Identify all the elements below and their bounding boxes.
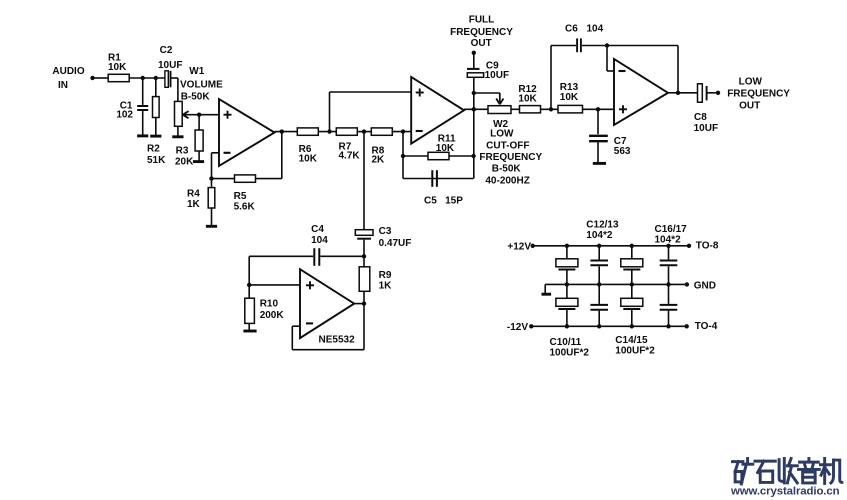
svg-text:R4: R4 bbox=[187, 188, 200, 199]
svg-text:100UF*2: 100UF*2 bbox=[550, 348, 590, 359]
svg-text:C12/13: C12/13 bbox=[586, 219, 619, 230]
svg-text:C5 15P: C5 15P bbox=[424, 196, 463, 207]
svg-text:R5: R5 bbox=[234, 191, 247, 202]
svg-text:B-50K: B-50K bbox=[181, 91, 211, 102]
svg-text:FREQUENCY: FREQUENCY bbox=[479, 152, 542, 163]
svg-text:OUT: OUT bbox=[739, 100, 760, 111]
svg-text:TO-8: TO-8 bbox=[696, 240, 719, 251]
svg-text:FULL: FULL bbox=[469, 15, 495, 26]
svg-text:100UF*2: 100UF*2 bbox=[615, 345, 655, 356]
svg-text:C3: C3 bbox=[379, 226, 392, 237]
svg-text:TO-4: TO-4 bbox=[695, 321, 718, 332]
svg-text:R10: R10 bbox=[260, 299, 279, 310]
svg-text:R2: R2 bbox=[147, 143, 160, 154]
svg-text:FREQUENCY: FREQUENCY bbox=[450, 27, 513, 38]
svg-text:C2: C2 bbox=[160, 45, 173, 56]
svg-text:C4: C4 bbox=[311, 224, 324, 235]
svg-text:20K: 20K bbox=[175, 156, 194, 167]
svg-text:-12V: -12V bbox=[507, 322, 528, 333]
svg-text:GND: GND bbox=[694, 281, 716, 292]
svg-text:VOLUME: VOLUME bbox=[180, 79, 223, 90]
svg-text:1K: 1K bbox=[187, 199, 201, 210]
svg-text:4.7K: 4.7K bbox=[339, 151, 361, 162]
svg-text:W1: W1 bbox=[189, 66, 204, 77]
svg-text:1K: 1K bbox=[379, 280, 393, 291]
svg-text:104: 104 bbox=[587, 24, 604, 35]
svg-text:2K: 2K bbox=[372, 155, 386, 166]
svg-text:104*2: 104*2 bbox=[655, 234, 682, 245]
svg-text:R3: R3 bbox=[176, 146, 189, 157]
svg-text:104*2: 104*2 bbox=[586, 230, 613, 241]
svg-text:www.crystalradio.cn: www.crystalradio.cn bbox=[730, 486, 840, 498]
svg-text:10K: 10K bbox=[299, 154, 318, 165]
svg-text:5.6K: 5.6K bbox=[234, 202, 256, 213]
svg-text:+12V: +12V bbox=[507, 241, 531, 252]
svg-text:FREQUENCY: FREQUENCY bbox=[727, 89, 790, 100]
svg-text:R9: R9 bbox=[379, 270, 392, 281]
svg-text:C16/17: C16/17 bbox=[655, 224, 688, 235]
svg-text:40-200HZ: 40-200HZ bbox=[485, 176, 529, 187]
svg-text:CUT-OFF: CUT-OFF bbox=[486, 140, 529, 151]
svg-text:OUT: OUT bbox=[471, 38, 492, 49]
svg-text:10K: 10K bbox=[436, 143, 455, 154]
svg-text:0.47UF: 0.47UF bbox=[379, 238, 412, 249]
svg-text:NE5532: NE5532 bbox=[319, 335, 356, 346]
svg-text:LOW: LOW bbox=[739, 76, 763, 87]
svg-text:10UF: 10UF bbox=[694, 123, 718, 134]
svg-text:C8: C8 bbox=[694, 112, 707, 123]
svg-text:10K: 10K bbox=[518, 94, 537, 105]
svg-text:10K: 10K bbox=[108, 62, 127, 73]
svg-text:10UF: 10UF bbox=[485, 70, 509, 81]
svg-text:B-50K: B-50K bbox=[492, 164, 522, 175]
svg-text:IN: IN bbox=[58, 80, 68, 91]
svg-text:200K: 200K bbox=[260, 310, 285, 321]
svg-text:AUDIO: AUDIO bbox=[52, 66, 84, 77]
svg-text:10UF: 10UF bbox=[158, 60, 182, 71]
svg-text:563: 563 bbox=[614, 146, 631, 157]
svg-text:LOW: LOW bbox=[490, 128, 514, 139]
svg-text:51K: 51K bbox=[147, 155, 166, 166]
svg-text:104: 104 bbox=[311, 235, 328, 246]
svg-text:C6: C6 bbox=[565, 24, 578, 35]
svg-text:C14/15: C14/15 bbox=[615, 335, 648, 346]
svg-text:102: 102 bbox=[116, 110, 133, 121]
svg-text:C10/11: C10/11 bbox=[550, 337, 582, 348]
svg-text:10K: 10K bbox=[560, 92, 579, 103]
